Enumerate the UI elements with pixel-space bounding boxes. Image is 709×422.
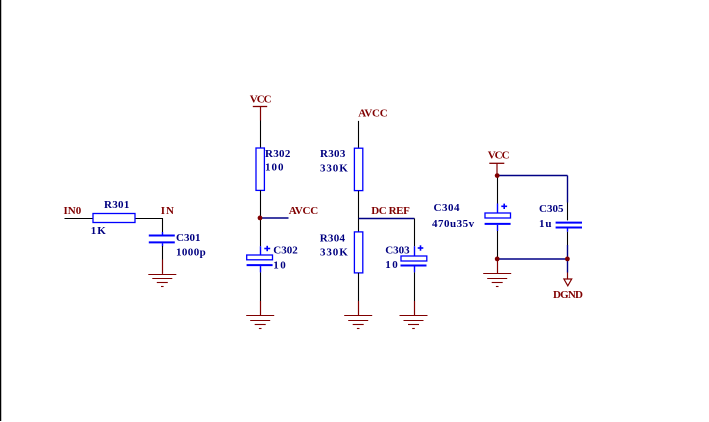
svg-text:DC REF: DC REF [371,205,410,217]
svg-text:470u35v: 470u35v [432,218,475,230]
svg-text:IN: IN [161,205,175,217]
svg-text:R304: R304 [320,232,346,244]
svg-text:AVCC: AVCC [358,107,388,119]
svg-text:VCC: VCC [488,150,510,162]
svg-text:C301: C301 [176,232,200,244]
svg-text:1000p: 1000p [176,247,206,259]
svg-text:VCC: VCC [250,94,272,106]
svg-text:C304: C304 [434,202,460,214]
svg-text:C302: C302 [273,245,298,257]
svg-text:10: 10 [385,259,399,271]
svg-text:330K: 330K [320,163,349,175]
svg-text:10: 10 [273,259,287,271]
svg-text:100: 100 [265,162,285,174]
svg-text:R301: R301 [104,199,130,211]
svg-text:AVCC: AVCC [289,205,319,217]
svg-text:1K: 1K [91,225,107,237]
svg-text:DGND: DGND [553,289,583,301]
svg-text:330K: 330K [320,247,349,259]
svg-text:R302: R302 [265,148,291,160]
svg-text:C305: C305 [539,203,564,215]
svg-text:1u: 1u [539,218,552,230]
svg-text:R303: R303 [320,148,346,160]
svg-text:C303: C303 [385,245,410,257]
svg-text:IN0: IN0 [64,205,82,217]
